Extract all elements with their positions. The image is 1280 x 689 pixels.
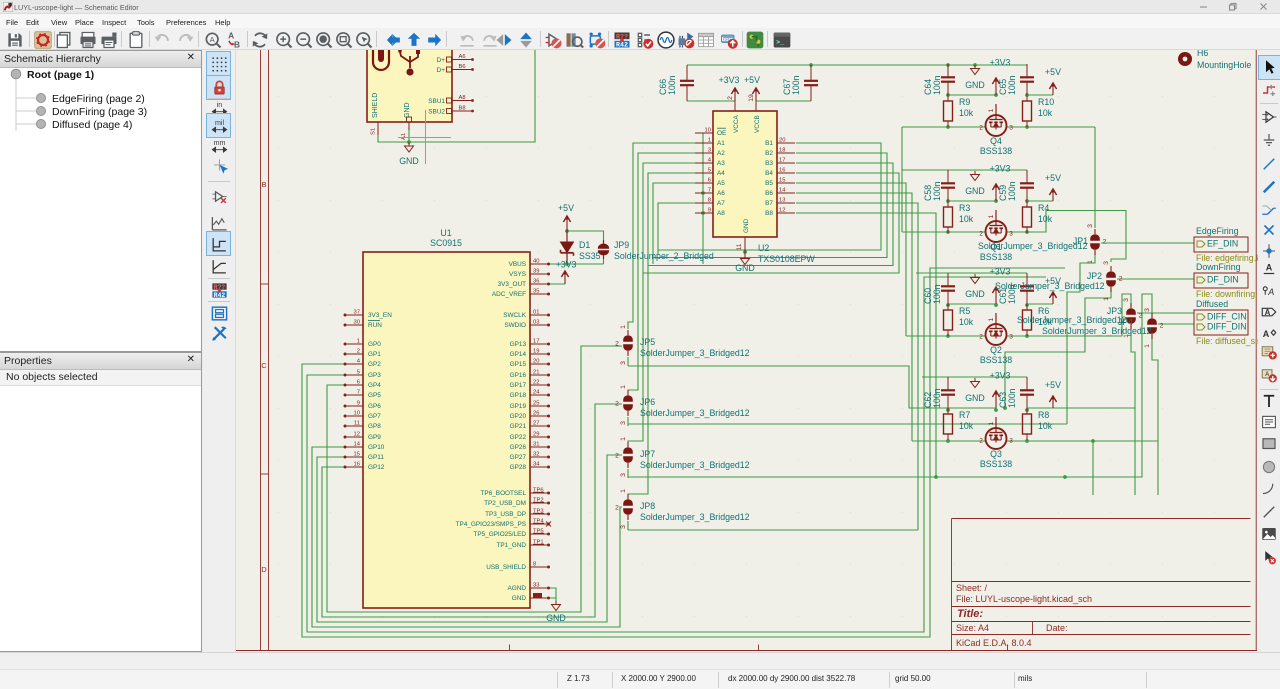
svg-text:10k: 10k: [959, 108, 974, 118]
svg-text:KiCad E.D.A. 8.0.4: KiCad E.D.A. 8.0.4: [956, 638, 1032, 648]
svg-text:D: D: [261, 565, 267, 574]
svg-text:GP7: GP7: [368, 413, 381, 420]
svg-text:A6: A6: [717, 190, 725, 197]
svg-text:+5V: +5V: [558, 203, 574, 213]
svg-text:GP3: GP3: [368, 372, 381, 379]
svg-text:A: A: [1263, 329, 1270, 339]
svg-text:21: 21: [533, 370, 539, 376]
svg-text:GP17: GP17: [510, 382, 527, 389]
svg-text:R7: R7: [959, 410, 970, 420]
svg-text:100n: 100n: [1007, 388, 1017, 408]
svg-text:31: 31: [533, 442, 539, 448]
svg-text:D+: D+: [437, 57, 446, 64]
svg-text:2: 2: [615, 401, 619, 408]
svg-text:R9: R9: [959, 97, 970, 107]
svg-text:10k: 10k: [1038, 421, 1053, 431]
svg-text:DF_DIN: DF_DIN: [1207, 275, 1239, 285]
svg-text:GP0: GP0: [368, 341, 381, 348]
svg-text:A5: A5: [717, 180, 725, 187]
svg-text:JP9: JP9: [614, 240, 629, 250]
svg-text:2: 2: [1160, 323, 1164, 330]
svg-text:GP15: GP15: [510, 361, 527, 368]
svg-text:+5V: +5V: [1045, 380, 1061, 390]
svg-text:12: 12: [779, 208, 785, 214]
svg-text:SBU1: SBU1: [428, 98, 445, 105]
svg-text:B: B: [261, 180, 266, 189]
svg-text:Sheet: /: Sheet: /: [956, 583, 988, 593]
svg-text:B3: B3: [765, 160, 773, 167]
svg-text:EF_DIN: EF_DIN: [1207, 239, 1238, 249]
svg-text:GP20: GP20: [510, 413, 527, 420]
svg-text:3: 3: [708, 148, 711, 154]
svg-text:20: 20: [533, 359, 539, 365]
svg-text:GP27: GP27: [510, 454, 527, 461]
svg-text:01: 01: [533, 310, 539, 316]
svg-text:26: 26: [533, 411, 539, 417]
svg-text:+3V3: +3V3: [556, 260, 577, 270]
svg-text:17: 17: [533, 339, 539, 345]
svg-text:GP1: GP1: [368, 351, 381, 358]
svg-text:GND: GND: [404, 102, 411, 118]
svg-text:A7: A7: [717, 200, 725, 207]
svg-text:33: 33: [533, 583, 539, 589]
svg-text:mil: mil: [214, 118, 224, 126]
svg-text:+3V3: +3V3: [990, 58, 1011, 68]
svg-text:SWDIO: SWDIO: [504, 322, 526, 329]
svg-text:VCCB: VCCB: [754, 115, 761, 133]
svg-text:100n: 100n: [932, 75, 942, 95]
svg-text:1: 1: [620, 489, 627, 493]
svg-text:10: 10: [705, 128, 711, 134]
svg-text:+3V3: +3V3: [719, 75, 740, 85]
svg-text:R8: R8: [1038, 410, 1049, 420]
svg-text:R4: R4: [1038, 203, 1049, 213]
svg-text:B4: B4: [765, 170, 773, 177]
svg-text:SS35: SS35: [579, 251, 601, 261]
svg-text:GP4: GP4: [368, 382, 381, 389]
svg-text:ADC_VREF: ADC_VREF: [492, 291, 526, 298]
svg-text:Size: A4: Size: A4: [956, 623, 989, 633]
svg-text:D1: D1: [579, 240, 590, 250]
svg-text:1: 1: [988, 421, 995, 425]
svg-text:GND: GND: [965, 393, 985, 403]
svg-text:03: 03: [533, 320, 539, 326]
svg-text:GP8: GP8: [368, 423, 381, 430]
svg-text:GP19: GP19: [510, 403, 527, 410]
svg-text:13: 13: [779, 198, 785, 204]
svg-text:39: 39: [533, 269, 539, 275]
svg-text:3V3_OUT: 3V3_OUT: [498, 281, 527, 288]
svg-text:VBUS: VBUS: [509, 261, 526, 268]
svg-text:DIFF_CIN: DIFF_CIN: [1207, 312, 1247, 322]
svg-text:A: A: [1265, 308, 1271, 317]
svg-text:10k: 10k: [959, 214, 974, 224]
svg-text:Q2: Q2: [990, 345, 1002, 355]
svg-text:24: 24: [533, 390, 540, 396]
svg-text:1: 1: [620, 325, 627, 329]
svg-text:U1: U1: [440, 228, 451, 238]
svg-text:22: 22: [533, 380, 539, 386]
svg-text:Q3: Q3: [990, 449, 1002, 459]
svg-text:>_: >_: [776, 38, 784, 46]
svg-text:1: 1: [988, 214, 995, 218]
svg-text:TP3: TP3: [533, 509, 544, 515]
svg-text:SolderJumper_3_Bridged12: SolderJumper_3_Bridged12: [640, 512, 750, 522]
svg-text:9: 9: [357, 401, 360, 407]
svg-text:6: 6: [708, 178, 711, 184]
svg-text:Diffused: Diffused: [1196, 299, 1228, 309]
svg-text:100n: 100n: [791, 75, 801, 95]
svg-text:3: 3: [1009, 231, 1013, 238]
svg-text:1: 1: [708, 138, 711, 144]
svg-text:JP8: JP8: [640, 501, 655, 511]
svg-text:100n: 100n: [932, 388, 942, 408]
svg-text:3V3_EN: 3V3_EN: [368, 312, 392, 319]
svg-text:10k: 10k: [1038, 214, 1053, 224]
svg-text:40: 40: [533, 259, 539, 265]
svg-text:DIFF_DIN: DIFF_DIN: [1207, 322, 1247, 332]
svg-text:100n: 100n: [932, 284, 942, 304]
svg-text:3: 3: [620, 421, 627, 425]
svg-text:3: 3: [620, 361, 627, 365]
svg-text:BSS138: BSS138: [980, 252, 1012, 262]
svg-text:3: 3: [620, 525, 627, 529]
svg-text:B1: B1: [765, 140, 773, 147]
svg-text:SolderJumper_3_Bridged12: SolderJumper_3_Bridged12: [640, 408, 750, 418]
svg-text:JP2: JP2: [1087, 271, 1102, 281]
svg-text:File: downfiring.kicad_sch: File: downfiring.kicad_sch: [1196, 289, 1258, 299]
svg-text:BSS138: BSS138: [980, 459, 1012, 469]
svg-text:3: 3: [1103, 261, 1110, 265]
svg-text:19: 19: [748, 94, 755, 102]
svg-text:3: 3: [620, 473, 627, 477]
svg-text:+5V: +5V: [1045, 173, 1061, 183]
svg-text:34: 34: [533, 462, 540, 468]
svg-text:SolderJumper_3_Bridged12: SolderJumper_3_Bridged12: [640, 460, 750, 470]
svg-text:+5V: +5V: [744, 75, 760, 85]
svg-text:SolderJumper_3_Bridged12: SolderJumper_3_Bridged12: [978, 241, 1088, 251]
svg-text:35: 35: [533, 289, 539, 295]
svg-text:mm: mm: [213, 138, 225, 146]
svg-text:9: 9: [708, 208, 711, 214]
svg-text:3: 3: [1009, 125, 1013, 132]
svg-text:8: 8: [533, 562, 536, 568]
svg-text:A2: A2: [717, 150, 725, 157]
svg-text:JP6: JP6: [640, 397, 655, 407]
svg-text:2: 2: [615, 453, 619, 460]
svg-text:2: 2: [615, 505, 619, 512]
svg-text:DownFiring: DownFiring: [1196, 262, 1241, 272]
svg-text:GP22: GP22: [510, 434, 527, 441]
svg-text:2: 2: [1139, 313, 1143, 320]
svg-text:GND: GND: [399, 156, 419, 166]
svg-text:GND: GND: [735, 263, 755, 273]
svg-text:GP9: GP9: [368, 434, 381, 441]
svg-text:2: 2: [1119, 276, 1123, 283]
svg-text:1: 1: [1144, 344, 1151, 348]
svg-text:GP21: GP21: [510, 423, 527, 430]
svg-text:SolderJumper_3_Bridged12: SolderJumper_3_Bridged12: [995, 281, 1105, 291]
svg-text:20: 20: [779, 138, 785, 144]
svg-text:TP6_BOOTSEL: TP6_BOOTSEL: [481, 490, 527, 497]
svg-text:36: 36: [533, 279, 539, 285]
svg-text:SolderJumper_3_Bridged12: SolderJumper_3_Bridged12: [1042, 326, 1152, 336]
svg-text:VCCA: VCCA: [733, 115, 740, 133]
svg-text:2: 2: [979, 125, 983, 132]
svg-text:Q4: Q4: [990, 136, 1002, 146]
svg-text:6: 6: [357, 380, 360, 386]
svg-text:1: 1: [620, 437, 627, 441]
svg-text:14: 14: [779, 188, 786, 194]
svg-text:SHIELD: SHIELD: [372, 93, 379, 118]
svg-text:A8: A8: [717, 210, 725, 217]
svg-text:R3: R3: [959, 203, 970, 213]
svg-text:B5: B5: [765, 180, 773, 187]
svg-text:Title:: Title:: [957, 608, 983, 620]
svg-text:27: 27: [533, 421, 539, 427]
svg-text:SWCLK: SWCLK: [503, 312, 526, 319]
svg-text:S1: S1: [371, 128, 377, 135]
svg-text:GP5: GP5: [368, 392, 381, 399]
svg-text:10k: 10k: [959, 317, 974, 327]
svg-text:A: A: [1266, 263, 1273, 273]
svg-text:7: 7: [708, 188, 711, 194]
svg-text:B: B: [234, 40, 240, 50]
svg-text:RUN: RUN: [368, 322, 382, 329]
svg-text:100n: 100n: [1007, 181, 1017, 201]
svg-text:TXS0108EPW: TXS0108EPW: [758, 254, 815, 264]
svg-text:A3: A3: [717, 160, 725, 167]
svg-text:JP1: JP1: [1073, 236, 1088, 246]
svg-text:A: A: [1267, 287, 1274, 297]
svg-text:19: 19: [533, 349, 539, 355]
svg-text:32: 32: [533, 452, 539, 458]
svg-text:17: 17: [779, 158, 785, 164]
svg-text:A6: A6: [458, 54, 465, 60]
svg-text:GND: GND: [965, 186, 985, 196]
svg-text:Date:: Date:: [1046, 623, 1068, 633]
svg-text:2: 2: [357, 349, 360, 355]
svg-text:5: 5: [357, 370, 360, 376]
svg-text:TP4_GPIO23/SMPS_PS: TP4_GPIO23/SMPS_PS: [456, 521, 526, 528]
svg-text:GP11: GP11: [368, 454, 384, 461]
svg-text:EdgeFiring: EdgeFiring: [1196, 226, 1239, 236]
svg-text:GP28: GP28: [510, 464, 527, 471]
svg-text:100n: 100n: [932, 181, 942, 201]
svg-text:3: 3: [1144, 308, 1151, 312]
svg-text:GP18: GP18: [510, 392, 527, 399]
svg-text:SBU2: SBU2: [428, 109, 445, 116]
svg-text:16: 16: [354, 462, 360, 468]
svg-text:15: 15: [779, 178, 785, 184]
svg-text:GP16: GP16: [510, 372, 527, 379]
svg-text:2: 2: [979, 231, 983, 238]
svg-text:R42: R42: [213, 291, 225, 298]
svg-text:MountingHole: MountingHole: [1197, 60, 1251, 70]
svg-text:A: A: [210, 35, 215, 44]
svg-text:10k: 10k: [959, 421, 974, 431]
svg-text:C: C: [261, 361, 267, 370]
svg-text:7: 7: [357, 390, 360, 396]
svg-text:U2: U2: [758, 243, 769, 253]
svg-text:SolderJumper_2_Bridged: SolderJumper_2_Bridged: [614, 251, 714, 261]
svg-text:USB_SHIELD: USB_SHIELD: [486, 564, 526, 571]
svg-text:JP7: JP7: [640, 449, 655, 459]
svg-text:TP1_GND: TP1_GND: [497, 542, 527, 549]
svg-text:GP13: GP13: [510, 341, 527, 348]
svg-text:3: 3: [1009, 334, 1013, 341]
svg-text:1: 1: [1103, 297, 1110, 301]
svg-text:14: 14: [354, 442, 361, 448]
svg-text:TP6: TP6: [533, 488, 544, 494]
svg-text:1: 1: [988, 108, 995, 112]
svg-text:TP2_USB_DM: TP2_USB_DM: [484, 500, 526, 507]
svg-text:A1: A1: [401, 133, 407, 140]
svg-text:11: 11: [354, 421, 360, 427]
svg-text:3: 3: [1009, 438, 1013, 445]
svg-text:15: 15: [354, 452, 360, 458]
svg-text:B2: B2: [765, 150, 773, 157]
svg-text:TP1: TP1: [533, 540, 544, 546]
svg-text:+3V3: +3V3: [990, 267, 1011, 277]
svg-text:8: 8: [708, 198, 711, 204]
svg-text:37: 37: [354, 310, 360, 316]
svg-text:VSYS: VSYS: [509, 271, 526, 278]
svg-text:GP26: GP26: [510, 444, 527, 451]
svg-text:GND: GND: [965, 80, 985, 90]
svg-text:100n: 100n: [1007, 75, 1017, 95]
svg-text:1: 1: [1087, 260, 1094, 264]
svg-text:BSS138: BSS138: [980, 146, 1012, 156]
svg-text:BSS138: BSS138: [980, 355, 1012, 365]
svg-text:TP5: TP5: [533, 529, 544, 535]
svg-text:1: 1: [620, 385, 627, 389]
svg-text:GP10: GP10: [368, 444, 385, 451]
svg-text:GP14: GP14: [510, 351, 527, 358]
svg-text:A4: A4: [717, 170, 725, 177]
svg-text:10k: 10k: [1038, 108, 1053, 118]
svg-text:JP5: JP5: [640, 337, 655, 347]
svg-text:2: 2: [979, 438, 983, 445]
svg-text:10: 10: [354, 411, 360, 417]
svg-text:H6: H6: [1197, 50, 1208, 58]
svg-text:18: 18: [779, 148, 785, 154]
svg-text:1: 1: [988, 317, 995, 321]
svg-text:B8: B8: [458, 106, 465, 112]
svg-text:2: 2: [615, 341, 619, 348]
svg-text:GP12: GP12: [368, 464, 385, 471]
svg-text:GND: GND: [743, 218, 750, 233]
svg-text:GND: GND: [512, 595, 527, 602]
svg-text:GND: GND: [546, 613, 566, 623]
svg-text:in: in: [216, 100, 222, 108]
svg-text:29: 29: [533, 432, 539, 438]
svg-text:12: 12: [354, 432, 360, 438]
svg-text:11: 11: [736, 243, 743, 250]
svg-text:B6: B6: [458, 64, 465, 70]
svg-text:+3V3: +3V3: [990, 164, 1011, 174]
svg-text:2: 2: [1103, 239, 1107, 246]
svg-text:16: 16: [779, 168, 785, 174]
svg-text:B7: B7: [765, 200, 773, 207]
svg-text:100n: 100n: [667, 75, 677, 95]
svg-text:GP2: GP2: [368, 361, 381, 368]
svg-text:TP4: TP4: [533, 519, 544, 525]
svg-text:3: 3: [1087, 224, 1094, 228]
svg-text:GP6: GP6: [368, 403, 381, 410]
svg-text:AGND: AGND: [508, 585, 527, 592]
svg-text:GND: GND: [965, 289, 985, 299]
svg-text:2: 2: [979, 334, 983, 341]
svg-text:B6: B6: [765, 190, 773, 197]
svg-text:TP5_GPIO25/LED: TP5_GPIO25/LED: [473, 531, 526, 538]
svg-text:+3V3: +3V3: [990, 371, 1011, 381]
svg-text:SolderJumper_3_Bridged12: SolderJumper_3_Bridged12: [1017, 315, 1127, 325]
svg-text:R5: R5: [959, 306, 970, 316]
svg-text:TP3_USB_DP: TP3_USB_DP: [485, 511, 526, 518]
svg-text:+5V: +5V: [1045, 67, 1061, 77]
svg-text:R42: R42: [616, 41, 628, 49]
svg-text:SC0915: SC0915: [430, 238, 462, 248]
svg-text:SolderJumper_3_Bridged12: SolderJumper_3_Bridged12: [640, 348, 750, 358]
svg-text:30: 30: [354, 320, 360, 326]
svg-text:25: 25: [533, 401, 539, 407]
svg-text:A8: A8: [458, 95, 465, 101]
svg-text:3: 3: [1123, 298, 1130, 302]
svg-text:1: 1: [357, 339, 360, 345]
svg-text:5: 5: [708, 168, 711, 174]
svg-text:File: LUYL-uscope-light.kicad_: File: LUYL-uscope-light.kicad_sch: [956, 594, 1092, 604]
svg-text:OE: OE: [717, 130, 726, 137]
svg-text:R10: R10: [1038, 97, 1054, 107]
svg-text:2: 2: [727, 96, 734, 100]
svg-text:D+: D+: [437, 67, 446, 74]
svg-text:TP2: TP2: [533, 498, 544, 504]
svg-text:B8: B8: [765, 210, 773, 217]
svg-text:File: diffused_single.kicad_sc: File: diffused_single.kicad_sch: [1196, 336, 1258, 346]
svg-text:A1: A1: [717, 140, 725, 147]
